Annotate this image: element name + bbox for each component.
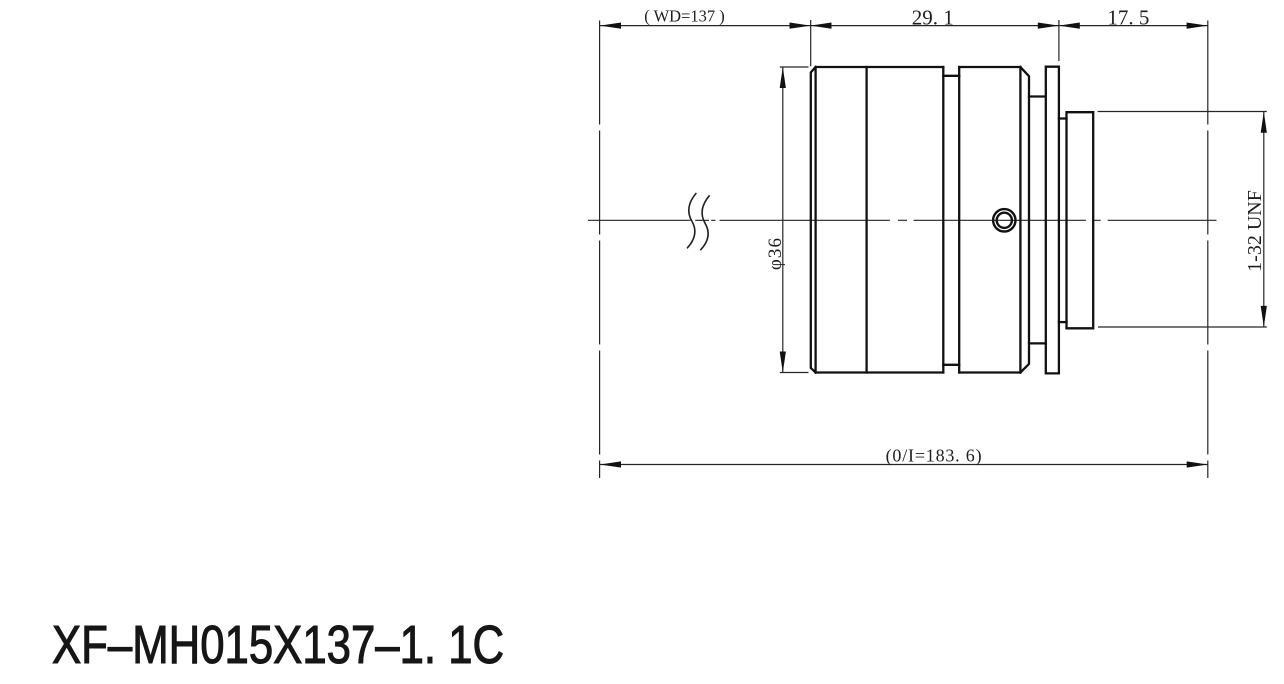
OI right arrow — [1187, 461, 1208, 467]
svg-text:29. 1: 29. 1 — [912, 6, 954, 30]
dia36 bottom arrow — [780, 352, 786, 373]
svg-text:(0/I=183. 6): (0/I=183. 6) — [886, 446, 983, 467]
collar bottom edge — [1059, 321, 1067, 323]
groove right face — [958, 67, 960, 373]
body bottom edge — [816, 371, 1021, 373]
dia36 dimension line — [782, 67, 784, 373]
svg-text:φ36: φ36 — [765, 237, 786, 270]
set screw outer circle — [993, 209, 1015, 231]
step to flange bottom — [1029, 342, 1046, 344]
17.5 right arrow — [1187, 23, 1208, 29]
WD left arrow — [600, 23, 621, 29]
dia36 top arrow — [780, 67, 786, 88]
groove left face — [942, 67, 944, 373]
unf bottom arrow — [1261, 306, 1267, 327]
svg-text:( WD=137 ): ( WD=137 ) — [644, 6, 725, 25]
svg-text:1-32 UNF: 1-32 UNF — [1244, 190, 1266, 272]
svg-text:XF–MH015X137–1. 1C: XF–MH015X137–1. 1C — [52, 616, 504, 675]
unf extension bottom — [1098, 326, 1267, 328]
body top edge — [816, 66, 1021, 68]
break symbol squiggle left curve — [687, 193, 696, 248]
dia36 extension top — [780, 66, 809, 68]
mount barrel 1-32 UNF — [1067, 112, 1094, 328]
svg-text:17. 5: 17. 5 — [1107, 6, 1149, 30]
17.5 left arrow — [1059, 23, 1080, 29]
front chamfer tangent line — [814, 67, 816, 373]
set screw socket circle — [997, 213, 1012, 228]
front face with chamfers — [811, 67, 816, 373]
flange plate — [1046, 67, 1059, 374]
lens body outline — [811, 67, 1093, 374]
step to flange top — [1029, 95, 1046, 97]
dia36 extension bottom — [780, 372, 809, 374]
bottom dimension line — [600, 464, 1208, 466]
29.1 right arrow — [1038, 23, 1059, 29]
object plane extension line (dashed) — [599, 21, 601, 479]
unf dimension line — [1263, 112, 1265, 327]
image plane extension line (dashed) — [1207, 21, 1209, 479]
29.1 left arrow — [811, 23, 832, 29]
unf extension top — [1098, 111, 1267, 113]
top dimension line — [600, 25, 1208, 27]
break symbol squiggle right curve — [700, 195, 709, 250]
groove floor edges — [943, 76, 959, 365]
collar top edge — [1059, 117, 1067, 119]
front face extension line — [810, 20, 812, 66]
rear chamfer tangent line — [1019, 67, 1021, 373]
WD right arrow — [790, 23, 811, 29]
arrowheads — [600, 23, 1267, 468]
ring divider — [865, 67, 867, 373]
unf top arrow — [1261, 112, 1267, 133]
centerline (optical axis) — [588, 219, 1217, 221]
OI left arrow — [600, 461, 621, 467]
rear face with chamfers — [1020, 67, 1029, 373]
flange face extension line — [1058, 20, 1060, 61]
dimension thin lines — [600, 20, 1267, 478]
